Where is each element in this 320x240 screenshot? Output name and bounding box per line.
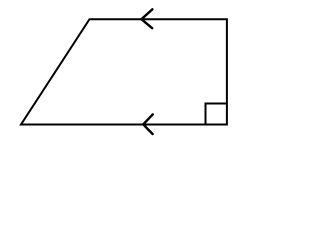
right-angle marker square at bottom-right corner: [206, 104, 227, 125]
trapezoid outline (vertices: top-left, top-right, bottom-right, bottom-left): [21, 19, 227, 124]
parallel-mark arrow on top edge (points left): [141, 9, 152, 28]
parallel-mark arrow on bottom edge (points left): [143, 114, 153, 134]
